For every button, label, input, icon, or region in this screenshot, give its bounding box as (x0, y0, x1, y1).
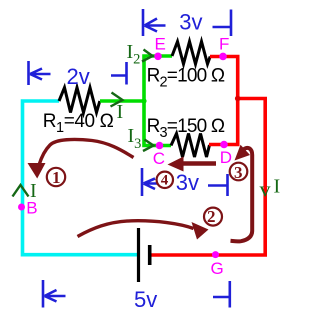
svg-text:I: I (117, 101, 124, 123)
loop arrow 4 head (168, 157, 184, 172)
svg-text:I2: I2 (127, 41, 141, 68)
wire: red right rail to battery (151, 99, 265, 256)
wire: red F to D vertical (209, 57, 238, 145)
svg-text:2v: 2v (67, 64, 90, 89)
dimension marker 2v: left arrow (30, 69, 51, 80)
junction dot red (235, 96, 241, 102)
node C dot (156, 142, 164, 150)
dimension marker 5v: left bar (42, 280, 45, 308)
current arrow I2 chevron (142, 50, 153, 62)
svg-text:5v: 5v (134, 287, 157, 312)
svg-text:3: 3 (234, 163, 243, 182)
loop arrow 4 shaft D to C (183, 161, 216, 166)
svg-text:R1=40 Ω: R1=40 Ω (43, 111, 114, 136)
svg-text:I: I (30, 180, 37, 202)
svg-text:I3: I3 (128, 125, 142, 152)
node B dot (18, 204, 25, 211)
dimension marker 3v top: right line and bar (213, 10, 232, 37)
dimension marker 5v: left arrow (45, 290, 66, 302)
resistor R3 zigzag (171, 134, 210, 158)
node G dot (212, 251, 219, 258)
dimension marker 3v top: left bar (142, 9, 145, 36)
svg-text:F: F (219, 35, 229, 54)
battery long plate (137, 228, 140, 282)
dimension marker 2v: left bar (27, 61, 30, 85)
loop arrow 1 curve (39, 139, 134, 165)
dimension marker 3v top: left arrow (145, 19, 166, 32)
dimension marker 2v: right line and bar (111, 62, 127, 85)
node F dot (219, 53, 227, 61)
dimension marker 5v: right line and bar (213, 281, 230, 308)
svg-text:3v: 3v (176, 170, 199, 195)
loop arrow 2 curve (78, 221, 194, 237)
svg-text:C: C (153, 149, 165, 168)
svg-text:3v: 3v (179, 9, 202, 34)
svg-text:R2=100 Ω: R2=100 Ω (147, 66, 225, 91)
dimension marker 3v mid: left bar (141, 168, 144, 196)
wire: cyan left loop B branch (23, 101, 138, 255)
junction green (141, 98, 146, 103)
dimension marker 3v mid: left arrow (144, 179, 162, 190)
svg-text:v: v (260, 177, 271, 202)
current arrow I3 chevron (143, 140, 154, 152)
loop arrow 3 curve (231, 148, 253, 242)
svg-text:G: G (211, 259, 224, 278)
battery short plate (148, 245, 152, 265)
resistor R1 zigzag (59, 88, 100, 113)
current arrow I after R1 (111, 93, 123, 107)
loop label 2 circle (204, 208, 222, 226)
dimension marker 3v mid: right line and bar (208, 174, 228, 196)
loop label 1 circle (47, 168, 65, 186)
wire: green from R1 to middle vertical (100, 99, 146, 103)
svg-text:1: 1 (52, 168, 61, 187)
loop arrow 2 head (192, 222, 209, 240)
svg-text:2: 2 (207, 207, 216, 226)
svg-text:I: I (274, 176, 281, 198)
svg-text:E: E (155, 35, 166, 54)
svg-text:R3=150 Ω: R3=150 Ω (147, 116, 225, 141)
svg-text:D: D (220, 148, 232, 167)
svg-text:4: 4 (161, 173, 169, 189)
wire: green middle vertical with E and C stubs (144, 56, 172, 146)
current arrow up left rail (13, 185, 29, 197)
loop arrow 3 head (235, 145, 251, 161)
loop label 3 circle (230, 163, 248, 181)
loop label 4 circle (157, 172, 173, 188)
node D dot (220, 141, 228, 149)
node E dot (154, 53, 162, 61)
loop arrow 1 head (28, 163, 46, 179)
resistor R2 zigzag (172, 42, 210, 65)
